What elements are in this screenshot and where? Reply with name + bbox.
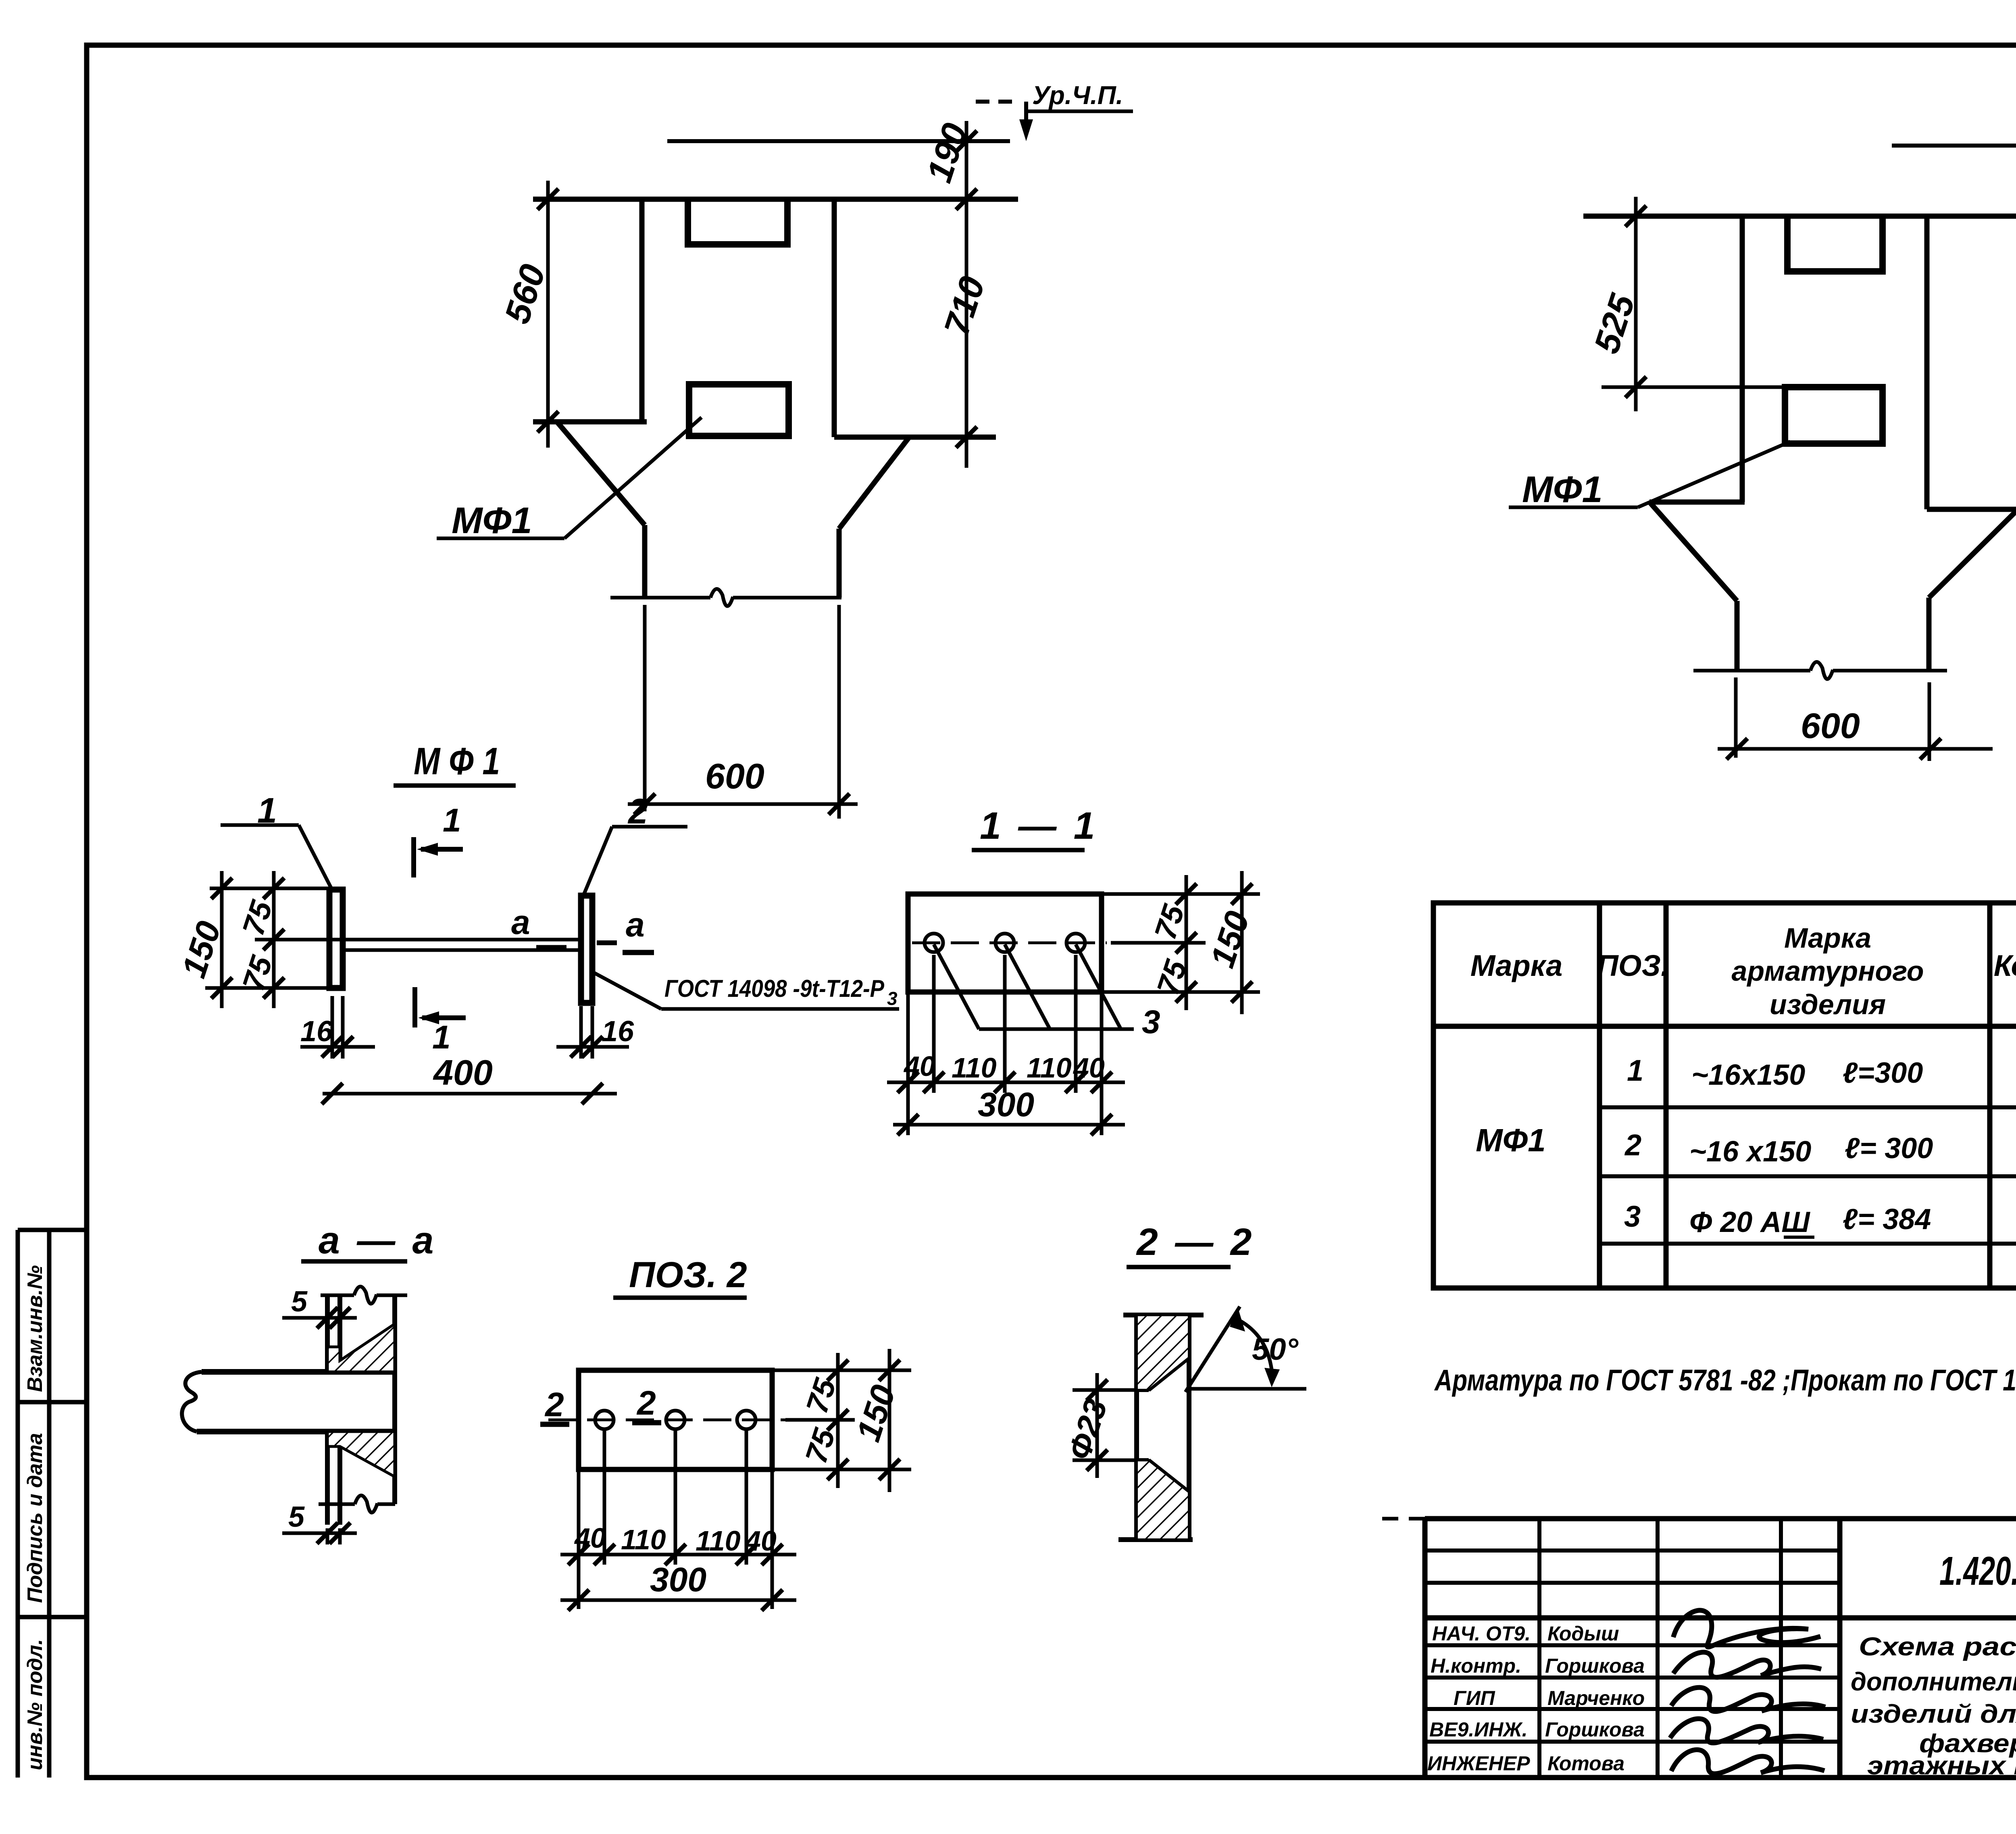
svg-text:этажных колоннах: этажных колоннах (1867, 1751, 2016, 1780)
signature table grid (1425, 1519, 1840, 1778)
hatch upper part (2-2) (1137, 1315, 1189, 1390)
dimension 300 (section 1-1) (893, 1114, 1125, 1135)
svg-text:5: 5 (291, 1286, 308, 1318)
plate cross-section with countersunk hole (2-2) (1118, 1315, 1204, 1540)
embedded plate МФ1 bottom (left drawing) (689, 384, 789, 436)
svg-text:1 — 1: 1 — 1 (980, 804, 1098, 847)
svg-text:1: 1 (443, 802, 461, 839)
svg-text:3: 3 (887, 988, 898, 1009)
plate pos.1 cross-section (a-a) (327, 1295, 340, 1525)
column shaft break line (right drawing) (1693, 662, 1947, 761)
svg-text:40: 40 (903, 1050, 935, 1082)
embedded plate МФ1 bottom (right drawing) (1785, 387, 1883, 444)
svg-text:16: 16 (300, 1015, 333, 1048)
svg-text:110: 110 (952, 1052, 997, 1084)
svg-text:600: 600 (705, 756, 764, 796)
concrete edge top with break (a-a) (321, 1286, 407, 1304)
right dimensions 75/75/150 (section 1-1) (1102, 871, 1260, 1014)
svg-text:110: 110 (1027, 1052, 1072, 1084)
svg-text:Марка: Марка (1470, 949, 1562, 982)
weld dimension 5 top (a-a) (282, 1307, 357, 1328)
svg-text:Котова: Котова (1547, 1752, 1624, 1775)
bottom dimensions 40/110/110/40 (ПОЗ.2) (560, 1431, 796, 1609)
svg-text:a: a (511, 903, 530, 941)
svg-text:ИНЖЕНЕР: ИНЖЕНЕР (1427, 1752, 1530, 1775)
dimension 300 (ПОЗ.2) (560, 1590, 796, 1611)
svg-text:2: 2 (636, 1384, 656, 1422)
right dimensions 75/75/150 (ПОЗ.2) (772, 1349, 911, 1492)
plate pos.1 (left, side view) (329, 890, 343, 988)
anchor holes (section 1-1) (925, 934, 1085, 952)
dimension 560 (left drawing) (537, 181, 558, 448)
level arrow head (left) (1019, 119, 1033, 141)
svg-text:2: 2 (544, 1386, 564, 1423)
svg-text:МФ1: МФ1 (1522, 469, 1603, 510)
svg-text:40: 40 (574, 1522, 606, 1554)
svg-text:1.420. 1-32. 04 -10: 1.420. 1-32. 04 -10 (1939, 1548, 2016, 1594)
signature squiggle 5 (1671, 1750, 1824, 1774)
signature squiggle 4 (1670, 1719, 1823, 1743)
hatch lower part (2-2) (1137, 1460, 1189, 1540)
svg-text:инв.№ подл.: инв.№ подл. (23, 1639, 47, 1770)
svg-text:НАЧ. ОТ9.: НАЧ. ОТ9. (1432, 1622, 1531, 1645)
svg-text:изделий для крепления: изделий для крепления (1851, 1699, 2016, 1728)
rod pos.3 in section a-a (side bar with break) (182, 1372, 395, 1432)
svg-text:40: 40 (744, 1525, 777, 1557)
svg-text:1: 1 (1627, 1054, 1643, 1087)
column face line (a-a) (392, 1295, 397, 1504)
svg-text:Арматура по ГОСТ 5781 -82 ;Про: Арматура по ГОСТ 5781 -82 ;Прокат по ГОС… (1434, 1363, 2016, 1397)
svg-text:ПОЗ. 2: ПОЗ. 2 (629, 1255, 747, 1295)
svg-text:ГОСТ 14098 -9t-Т12-Р: ГОСТ 14098 -9t-Т12-Р (664, 975, 885, 1002)
svg-text:ℓ= 300: ℓ= 300 (1845, 1132, 1933, 1165)
weld dimension 5 bottom (a-a) (282, 1523, 357, 1544)
svg-text:1: 1 (432, 1019, 451, 1056)
centre line (ПОЗ.2) (548, 1419, 785, 1421)
svg-text:Марка: Марка (1784, 922, 1871, 954)
plate outline (ПОЗ.2) (579, 1370, 772, 1469)
centre line through holes (912, 942, 1107, 944)
svg-text:ГИП: ГИП (1454, 1687, 1495, 1709)
dimension Ф23 (2-2) (1073, 1373, 1137, 1478)
svg-text:ПОЗ.: ПОЗ. (1597, 949, 1669, 982)
svg-text:3: 3 (1624, 1200, 1641, 1233)
svg-text:~16x150: ~16x150 (1691, 1059, 1805, 1091)
dimension 16 (right plate thickness) (556, 1006, 629, 1059)
svg-text:40: 40 (1073, 1052, 1105, 1084)
dimension 16 (left plate thickness) (300, 996, 375, 1059)
svg-text:a — a: a — a (319, 1219, 437, 1262)
МФ1 leader (left drawing) (437, 417, 702, 538)
dimension 600 (left drawing) (628, 794, 858, 815)
svg-text:a: a (626, 906, 645, 944)
svg-text:Кол.: Кол. (1994, 949, 2016, 982)
column shaft break line (left drawing) (610, 589, 841, 819)
title block grid (1425, 1519, 2016, 1778)
svg-text:М Ф 1: М Ф 1 (414, 740, 500, 783)
holes (ПОЗ.2) (595, 1411, 756, 1429)
svg-text:ℓ= 384: ℓ= 384 (1843, 1203, 1931, 1236)
svg-text:3: 3 (1142, 1004, 1160, 1040)
table grid (1433, 903, 2016, 1288)
signature squiggle 3 (1671, 1688, 1825, 1712)
plate outline (section 1-1) (908, 894, 1102, 992)
plate pos.2 (right, side view) (581, 896, 592, 1003)
anchor rods diagonals (pos 3) (934, 944, 1134, 1029)
svg-text:Подпись и дата: Подпись и дата (23, 1433, 47, 1603)
svg-text:300: 300 (978, 1086, 1034, 1123)
floor level line Ур.Ч.П. (right) (1892, 102, 2016, 146)
svg-text:Горшкова: Горшкова (1545, 1655, 1645, 1677)
svg-text:110: 110 (621, 1524, 666, 1555)
svg-text:600: 600 (1801, 706, 1860, 746)
dimension 400 (МФ1 view) (322, 1083, 617, 1104)
svg-text:арматурного: арматурного (1731, 955, 1924, 987)
svg-text:Кодыш: Кодыш (1547, 1622, 1619, 1645)
angle 50° annotation (2-2) (1185, 1307, 1306, 1392)
svg-text:110: 110 (696, 1525, 741, 1557)
dimension 600 (right drawing) (1718, 738, 1993, 759)
column outline (left drawing) (533, 199, 1018, 598)
svg-text:2 — 2: 2 — 2 (1136, 1221, 1255, 1263)
svg-text:изделия: изделия (1770, 989, 1886, 1020)
svg-text:Н.контр.: Н.контр. (1431, 1655, 1521, 1677)
section mark 1 (top) (414, 837, 463, 877)
embedded plate МФ1 top (left drawing) (688, 201, 787, 244)
weld hatch lower (a-a) (327, 1432, 395, 1477)
hole edges (2-2) (1137, 1358, 1189, 1492)
svg-text:~16 x150: ~16 x150 (1689, 1136, 1811, 1168)
svg-text:Ур.Ч.П.: Ур.Ч.П. (1032, 81, 1123, 110)
weld hatch upper (a-a) (327, 1324, 395, 1372)
concrete edge bottom with break (a-a) (319, 1495, 395, 1513)
svg-text:дополнительных закладных: дополнительных закладных (1851, 1667, 2016, 1696)
svg-text:ВЕ9.ИНЖ.: ВЕ9.ИНЖ. (1429, 1718, 1527, 1741)
svg-text:Горшкова: Горшкова (1545, 1718, 1645, 1741)
dimension 75/75 left (МФ1 view) (263, 871, 284, 1008)
section mark 1 (bottom) (415, 987, 466, 1027)
svg-text:16: 16 (602, 1015, 634, 1048)
svg-text:Схема расположения: Схема расположения (1859, 1632, 2016, 1661)
dimension 525 (right drawing) (1602, 197, 1785, 411)
bottom dimensions 40/110/110/40 (section 1-1) (887, 955, 1125, 1135)
svg-text:МФ1: МФ1 (452, 500, 532, 541)
svg-text:Марченко: Марченко (1547, 1687, 1645, 1709)
svg-text:50°: 50° (1252, 1332, 1299, 1367)
svg-text:2: 2 (1624, 1128, 1641, 1162)
svg-text:5: 5 (288, 1501, 305, 1533)
floor level line Ур.Ч.П. (left) (667, 102, 1026, 141)
column outline (right drawing) (1583, 216, 2016, 671)
svg-text:400: 400 (433, 1052, 493, 1092)
dimension line 190/710 (left drawing) (956, 121, 977, 468)
svg-text:Взам.инв.№: Взам.инв.№ (23, 1265, 47, 1392)
dimension 150 left (МФ1 view) (205, 871, 343, 1008)
svg-text:Ф 20 АШ: Ф 20 АШ (1689, 1206, 1810, 1238)
signature squiggle 2 (1673, 1652, 1821, 1677)
МФ1 leader (right drawing) (1509, 442, 1790, 507)
svg-text:300: 300 (650, 1561, 706, 1598)
anchor rod pos.3 between plates (343, 940, 617, 950)
signature squiggle 1 (1673, 1610, 1820, 1647)
svg-text:ℓ=300: ℓ=300 (1843, 1057, 1923, 1089)
left side column: vertical stamp table (18, 1230, 87, 1778)
svg-text:МФ1: МФ1 (1476, 1122, 1546, 1158)
embedded plate МФ1 top (right drawing) (1787, 218, 1883, 271)
